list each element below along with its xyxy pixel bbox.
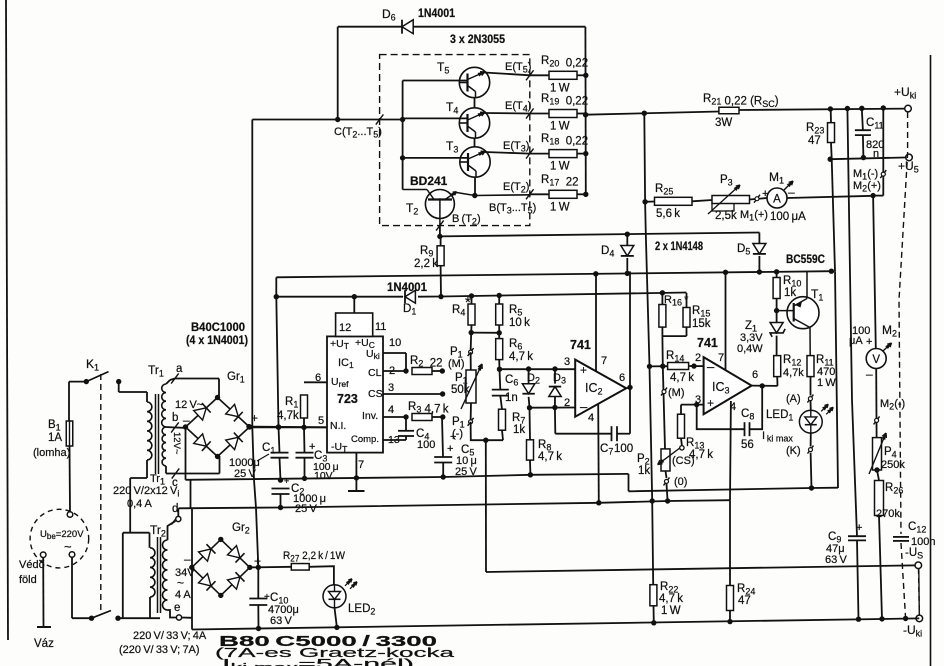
svg-text:50k: 50k [451,384,470,396]
svg-text:–: – [184,552,191,566]
svg-text:+: + [762,188,768,200]
svg-text:4: 4 [588,412,594,424]
svg-text:1A: 1A [48,432,62,444]
svg-text:μA: μA [849,335,863,347]
svg-text:100: 100 [417,439,435,451]
svg-text:CS: CS [368,388,383,400]
svg-text:(M): (M) [668,387,685,399]
svg-text:6: 6 [752,369,758,381]
svg-text:5,6 k: 5,6 k [656,208,680,220]
svg-text:(A): (A) [786,393,801,405]
svg-text:+: + [251,411,258,425]
svg-text:N.I.: N.I. [330,420,346,432]
svg-text:Ube=220V: Ube=220V [40,529,84,541]
svg-text:1N4001: 1N4001 [387,282,428,294]
svg-text:BC559C: BC559C [786,254,825,266]
svg-text:1N4001: 1N4001 [418,8,456,20]
svg-text:63 V: 63 V [825,554,847,566]
svg-text:1 W: 1 W [661,605,681,617]
svg-text:–: – [707,359,715,374]
svg-text:+: + [447,443,453,455]
svg-text:4,7 k: 4,7 k [509,351,533,363]
svg-text:4,7k: 4,7k [783,367,804,379]
svg-text:741: 741 [697,336,718,350]
svg-text:63 V: 63 V [270,615,292,627]
svg-text:1 W: 1 W [550,161,570,173]
svg-text:12: 12 [339,322,351,334]
svg-text:3W: 3W [715,117,732,129]
svg-text:100: 100 [614,443,633,455]
svg-text:1k: 1k [638,465,650,477]
svg-text:2: 2 [564,397,570,409]
svg-text:25 V: 25 V [455,466,477,478]
svg-text:B (T2): B (T2) [452,213,481,227]
svg-text:M2(+): M2(+) [853,180,881,194]
svg-text:(lomha): (lomha) [33,447,70,459]
svg-text:4: 4 [388,404,394,416]
svg-text:25 V: 25 V [295,503,317,515]
svg-text:–: – [580,399,588,414]
svg-text:3: 3 [564,356,570,368]
svg-text:+: + [866,336,872,348]
svg-text:+: + [856,522,862,534]
svg-text:b: b [172,412,178,424]
svg-text:0,4W: 0,4W [737,343,763,355]
svg-text:5: 5 [318,415,324,427]
svg-text:250k: 250k [881,459,905,471]
svg-text:(K): (K) [786,445,801,457]
svg-text:2,5k: 2,5k [715,210,737,222]
svg-text:1k: 1k [513,424,525,436]
svg-text:4,7 k: 4,7 k [670,372,694,384]
svg-text:7: 7 [358,459,364,471]
svg-text:10 k: 10 k [509,317,530,329]
svg-text:7: 7 [601,355,607,367]
svg-text:(-): (-) [452,428,463,440]
svg-text:Inv.: Inv. [362,410,378,422]
svg-text:*: * [465,294,471,311]
svg-text:220 V/2x12 Vi: 220 V/2x12 Vi [113,485,179,499]
svg-text:47: 47 [738,595,751,607]
svg-text:–: – [866,367,873,381]
svg-text:Védő: Védő [19,559,45,571]
svg-text:47: 47 [808,135,821,147]
svg-text:E(T3): E(T3) [503,140,529,154]
svg-text:723: 723 [337,392,358,406]
svg-text:2 x 1N4148: 2 x 1N4148 [655,241,703,253]
svg-text:1k: 1k [784,287,796,299]
svg-text:B40C1000: B40C1000 [191,322,245,334]
svg-text:1 W: 1 W [550,82,570,94]
svg-text:E(T4): E(T4) [505,100,531,114]
svg-text:4,7k: 4,7k [277,410,299,422]
svg-text:6: 6 [619,372,625,384]
svg-text:e: e [174,602,180,614]
svg-text:+: + [284,476,289,486]
svg-text:741: 741 [570,338,591,352]
svg-text:4,7 k: 4,7 k [538,451,562,463]
svg-text:Váz: Váz [34,638,54,650]
svg-text:3: 3 [388,382,394,394]
svg-text:(M): (M) [448,358,465,370]
svg-text:M1(+): M1(+) [740,209,768,223]
svg-text:(220 V/ 33 V; 7A): (220 V/ 33 V; 7A) [119,644,200,656]
svg-text:4 A: 4 A [175,589,191,601]
svg-text:1 W: 1 W [550,121,570,133]
svg-text:~: ~ [177,576,184,590]
svg-text:+: + [580,363,587,377]
svg-text:(4 x 1N4001): (4 x 1N4001) [186,335,248,347]
svg-text:E(T2): E(T2) [503,181,529,195]
svg-text:56: 56 [741,439,754,451]
svg-text:4,7 k: 4,7 k [689,449,713,461]
svg-text:3 x 2N3055: 3 x 2N3055 [450,32,505,46]
svg-text:7: 7 [718,352,724,364]
svg-text:12V~: 12V~ [171,432,182,455]
svg-text:(0): (0) [674,476,687,488]
svg-text:15k: 15k [692,318,711,330]
svg-text:2,2 k: 2,2 k [414,258,438,270]
svg-text:0,4 A: 0,4 A [127,498,152,510]
svg-text:föld: föld [19,574,37,586]
svg-text:A: A [773,194,781,206]
svg-text:1 W: 1 W [817,377,836,389]
svg-text:10V: 10V [314,470,333,482]
svg-text:CL: CL [368,367,382,379]
svg-text:10: 10 [389,337,401,349]
svg-text:1 W: 1 W [550,201,570,213]
svg-text:2: 2 [695,352,701,364]
svg-text:–: – [788,185,795,199]
svg-text:Comp.: Comp. [351,434,379,445]
svg-text:V: V [872,354,880,366]
svg-text:1n: 1n [505,392,518,404]
svg-text:BD241: BD241 [410,174,448,188]
svg-text:+: + [707,396,714,410]
svg-text:220 V/ 33 V; 4A: 220 V/ 33 V; 4A [133,630,207,642]
svg-text:100 μA: 100 μA [770,211,806,223]
svg-text:E(T5): E(T5) [505,61,531,75]
svg-text:a: a [176,363,183,375]
svg-text:11: 11 [375,321,386,333]
svg-text:4,7 k: 4,7 k [659,593,683,605]
